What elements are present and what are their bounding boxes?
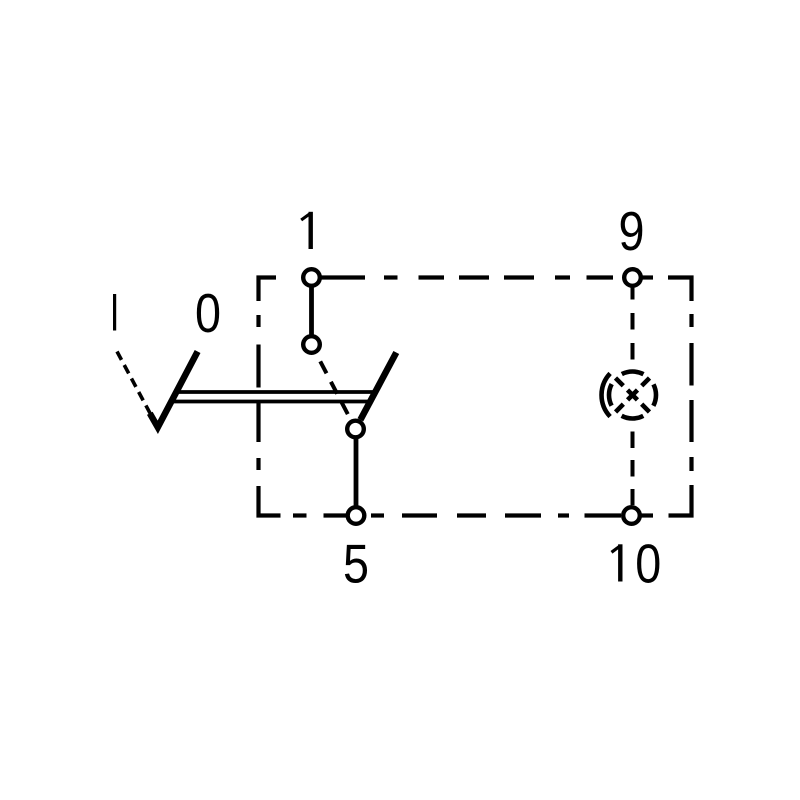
svg-text:9: 9 xyxy=(619,200,645,261)
svg-text:5: 5 xyxy=(343,533,369,594)
svg-text:0: 0 xyxy=(635,533,661,594)
svg-text:0: 0 xyxy=(195,282,221,343)
